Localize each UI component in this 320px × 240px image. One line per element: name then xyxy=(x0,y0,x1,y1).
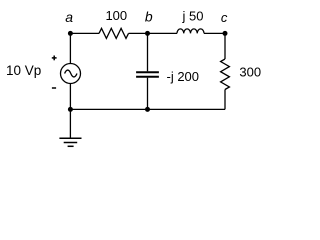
voltage source VS 10 Vp circle xyxy=(61,64,81,84)
wire node c down to resistor 300 xyxy=(224,33,226,59)
plus sign of source xyxy=(52,56,57,61)
resistor 100 xyxy=(99,28,129,38)
node c junction dot xyxy=(223,31,228,36)
svg-text:10 Vp: 10 Vp xyxy=(6,63,41,78)
ground bar 2 xyxy=(64,142,77,144)
wire capacitor to rail xyxy=(147,78,149,110)
wire top rail a to resistor xyxy=(70,32,99,34)
ground bar 3 xyxy=(68,145,74,147)
voltage source sine wave xyxy=(65,70,77,77)
node b junction dot xyxy=(145,31,150,36)
svg-text:a: a xyxy=(65,9,73,25)
inductor j50 xyxy=(177,29,204,34)
wire node a down to source xyxy=(69,33,71,63)
capacitor -j200 bottom plate xyxy=(136,76,159,78)
wire bottom rail xyxy=(70,108,225,110)
wire resistor 300 to rail xyxy=(224,90,226,110)
wire source bottom to rail xyxy=(69,84,71,110)
svg-text:300: 300 xyxy=(239,65,261,80)
ground stem xyxy=(69,109,71,138)
svg-text:-j 200: -j 200 xyxy=(167,69,200,84)
svg-text:j 50: j 50 xyxy=(182,8,204,23)
wire resistor to node b xyxy=(129,32,148,34)
svg-text:100: 100 xyxy=(105,8,127,23)
ground bar 1 xyxy=(59,137,81,139)
capacitor -j200 top plate xyxy=(136,71,159,73)
svg-text:b: b xyxy=(145,9,153,25)
svg-text:c: c xyxy=(221,10,228,25)
resistor 300 xyxy=(221,59,230,90)
node a junction dot xyxy=(68,31,73,36)
wire node b down to capacitor xyxy=(147,33,149,71)
junction dot rail left xyxy=(68,107,73,112)
wire inductor to node c xyxy=(204,32,225,34)
wire node b to inductor xyxy=(148,32,178,34)
junction dot rail capacitor xyxy=(145,107,150,112)
minus sign of source xyxy=(52,87,56,89)
